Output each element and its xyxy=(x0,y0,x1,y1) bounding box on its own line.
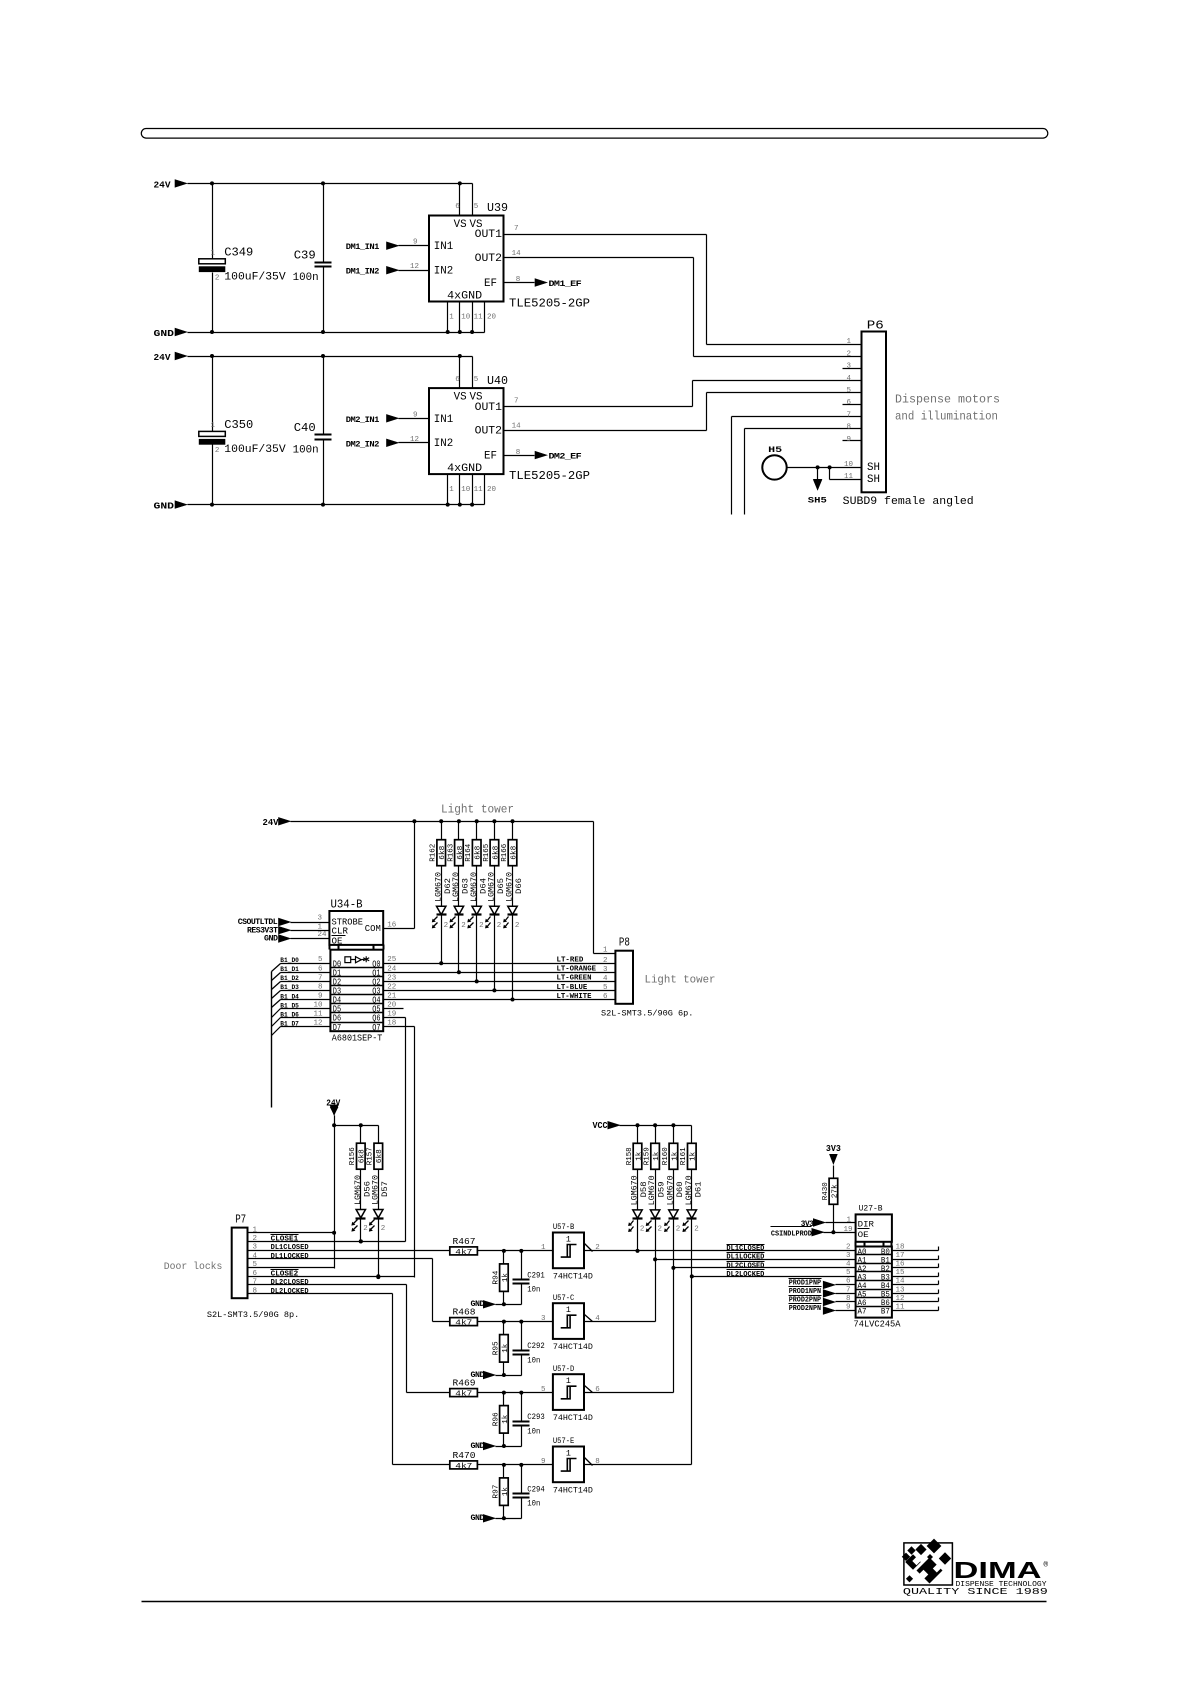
svg-text:D7: D7 xyxy=(333,1023,341,1033)
svg-text:S2L-SMT3.5/90G 8p.: S2L-SMT3.5/90G 8p. xyxy=(207,1310,299,1320)
svg-text:R162: R162 xyxy=(430,843,438,861)
svg-text:1k: 1k xyxy=(690,1151,698,1161)
svg-text:VCC: VCC xyxy=(593,1120,608,1131)
svg-text:Door locks: Door locks xyxy=(164,1261,223,1273)
wire Q3 LT-BLUE to P8 pin5 xyxy=(384,984,616,993)
wire Q7 down to door locks xyxy=(384,1027,415,1278)
svg-text:A7: A7 xyxy=(858,1308,867,1317)
svg-text:20: 20 xyxy=(487,314,497,322)
svg-text:B1_D2: B1_D2 xyxy=(280,975,299,982)
power flag 24V (U39 rail) xyxy=(154,179,188,190)
resistor R161 1k xyxy=(680,1126,698,1170)
svg-text:COM: COM xyxy=(365,924,381,934)
svg-text:OUT2: OUT2 xyxy=(475,253,502,265)
label Light tower header xyxy=(441,803,514,816)
svg-text:10n: 10n xyxy=(527,1355,540,1365)
svg-text:4k7: 4k7 xyxy=(455,1320,472,1328)
svg-text:DL1CLOSED: DL1CLOSED xyxy=(271,1244,309,1252)
svg-text:1: 1 xyxy=(566,1448,571,1458)
net label DL1CLOSED at U27 xyxy=(726,1245,764,1254)
svg-text:DL2CLOSED: DL2CLOSED xyxy=(271,1279,309,1287)
svg-text:IN1: IN1 xyxy=(434,414,453,426)
svg-text:1: 1 xyxy=(318,923,323,931)
svg-text:R469: R469 xyxy=(453,1378,476,1389)
svg-text:24: 24 xyxy=(318,931,328,939)
svg-text:1: 1 xyxy=(253,1226,258,1234)
svg-text:Dispense motors: Dispense motors xyxy=(895,394,1000,407)
svg-text:CLR: CLR xyxy=(332,926,349,936)
border top bar xyxy=(141,129,1048,139)
svg-text:D66: D66 xyxy=(515,878,524,894)
svg-text:74HCT14D: 74HCT14D xyxy=(553,1271,593,1281)
svg-text:SH: SH xyxy=(867,474,880,486)
svg-text:R164: R164 xyxy=(465,843,473,861)
svg-text:S2L-SMT3.5/90G 6p.: S2L-SMT3.5/90G 6p. xyxy=(601,1008,693,1018)
svg-text:DL1LOCKED: DL1LOCKED xyxy=(726,1254,764,1262)
resistor R157 6k8 xyxy=(367,1126,385,1170)
resistor R430 27k xyxy=(822,1166,840,1235)
svg-text:1k: 1k xyxy=(653,1151,661,1161)
svg-text:DM1_IN1: DM1_IN1 xyxy=(346,243,380,252)
svg-text:U57-E: U57-E xyxy=(553,1436,574,1446)
svg-text:VS: VS xyxy=(454,219,467,231)
wire U57-D output up to U27 A2 xyxy=(585,1220,676,1393)
svg-text:C291: C291 xyxy=(527,1270,545,1280)
svg-text:1k: 1k xyxy=(671,1151,679,1161)
svg-text:10n: 10n xyxy=(527,1426,540,1436)
svg-text:U57-C: U57-C xyxy=(553,1293,574,1303)
U40 OUT pin numbers xyxy=(512,398,522,431)
svg-text:20: 20 xyxy=(487,486,497,494)
svg-text:DM1_EF: DM1_EF xyxy=(549,280,582,289)
svg-text:D57: D57 xyxy=(381,1181,390,1197)
resistor R469 4k7 xyxy=(450,1378,478,1399)
capacitor C350 100uF/35V xyxy=(199,357,286,505)
LED D63 LGM670 xyxy=(450,866,471,973)
svg-text:R158: R158 xyxy=(626,1147,634,1165)
svg-text:1k: 1k xyxy=(502,1343,510,1353)
svg-text:R161: R161 xyxy=(680,1147,688,1165)
schmitt inverter U57-D 74HCT14D xyxy=(553,1364,600,1423)
svg-text:SUBD9 female angled: SUBD9 female angled xyxy=(843,496,974,508)
svg-text:8: 8 xyxy=(846,424,851,432)
wire U40 OUT2 to P6 pin5 xyxy=(504,393,862,431)
svg-text:Light tower: Light tower xyxy=(645,975,716,987)
svg-text:H5: H5 xyxy=(768,446,782,455)
svg-text:1: 1 xyxy=(603,947,608,955)
svg-text:EF: EF xyxy=(484,451,497,463)
svg-text:9: 9 xyxy=(413,411,418,419)
wire R467 to U57-B input xyxy=(478,1244,553,1253)
svg-text:B1_D0: B1_D0 xyxy=(280,957,299,964)
wire P6 pin6 stub xyxy=(843,404,862,406)
resistor R468 4k7 xyxy=(450,1307,478,1328)
svg-text:OUT2: OUT2 xyxy=(475,425,502,437)
svg-text:6k8: 6k8 xyxy=(439,846,447,860)
svg-text:1: 1 xyxy=(566,1234,571,1244)
wire P6 pin7 stub down xyxy=(732,417,862,515)
svg-text:DM2_EF: DM2_EF xyxy=(549,453,582,462)
svg-text:GND: GND xyxy=(264,934,278,943)
capacitor C291 10n xyxy=(513,1251,545,1305)
wire H5 to P6 pin10 xyxy=(787,465,862,469)
svg-text:LGM670: LGM670 xyxy=(631,1175,640,1205)
wire Q4 LT-WHITE to P8 pin6 xyxy=(384,993,616,1002)
H-bridge driver U39 TLE5205-2GP body xyxy=(429,201,590,310)
net label DL2CLOSED at U27 xyxy=(726,1262,764,1271)
U40 GND pins 1,10,11,20 xyxy=(448,475,497,505)
svg-text:PROD2NPN: PROD2NPN xyxy=(789,1305,821,1313)
IC U27-B control gate body xyxy=(856,1203,892,1246)
LED D65 LGM670 xyxy=(485,866,506,991)
svg-text:3: 3 xyxy=(318,915,323,923)
svg-text:EF: EF xyxy=(484,278,497,290)
svg-text:U34-B: U34-B xyxy=(331,897,363,911)
capacitor C349 100uF/35V xyxy=(199,184,286,333)
svg-text:74HCT14D: 74HCT14D xyxy=(553,1485,593,1495)
capacitor C293 10n xyxy=(513,1393,545,1447)
svg-text:7: 7 xyxy=(846,411,851,419)
resistor R467 4k7 xyxy=(450,1236,478,1257)
svg-text:8: 8 xyxy=(516,449,521,457)
LED D61 LGM670 xyxy=(682,1170,703,1234)
svg-text:QUALITY SINCE 1989: QUALITY SINCE 1989 xyxy=(903,1586,1048,1597)
svg-text:1: 1 xyxy=(211,249,216,257)
power flag 24V (light tower) xyxy=(263,817,291,828)
svg-text:2: 2 xyxy=(363,1225,368,1233)
ground flag GND (C294) xyxy=(471,1514,522,1523)
net PROD1PNP input flag xyxy=(789,1279,856,1289)
svg-text:U27-B: U27-B xyxy=(859,1203,883,1213)
svg-text:1k: 1k xyxy=(635,1151,643,1161)
svg-text:1k: 1k xyxy=(502,1273,510,1283)
DIMA logo text xyxy=(903,1557,1049,1597)
svg-text:2: 2 xyxy=(846,1244,851,1252)
resistor R96 1k xyxy=(492,1393,510,1449)
ground flag GND (C293) xyxy=(471,1442,522,1451)
svg-text:3V3: 3V3 xyxy=(826,1143,841,1154)
svg-text:TLE5205-2GP: TLE5205-2GP xyxy=(509,469,590,483)
svg-text:LGM670: LGM670 xyxy=(648,1175,657,1205)
svg-text:R163: R163 xyxy=(447,843,455,861)
svg-text:4xGND: 4xGND xyxy=(447,290,482,302)
net DM2_IN2 input flag xyxy=(346,436,430,450)
svg-text:DM2_IN2: DM2_IN2 xyxy=(346,440,380,449)
svg-text:2: 2 xyxy=(515,922,520,930)
svg-text:1: 1 xyxy=(566,1376,571,1386)
svg-text:7: 7 xyxy=(253,1279,258,1287)
label Dispense motors xyxy=(895,394,1000,407)
svg-text:2: 2 xyxy=(846,350,851,358)
svg-text:LGM670: LGM670 xyxy=(371,1175,380,1205)
wire U39 OUT2 to P6 pin2 xyxy=(504,258,862,357)
svg-text:3: 3 xyxy=(846,363,851,371)
DIMA logo mark xyxy=(902,1539,953,1585)
LED D60 LGM670 xyxy=(664,1170,685,1234)
net 3V3 input flag (DIR) xyxy=(801,1217,856,1229)
svg-text:U57-B: U57-B xyxy=(553,1222,574,1232)
resistor R470 4k7 xyxy=(450,1450,478,1471)
svg-text:100n: 100n xyxy=(293,272,319,284)
svg-text:6: 6 xyxy=(455,376,460,384)
svg-text:C294: C294 xyxy=(527,1484,545,1494)
IC U34-B control gate body xyxy=(329,897,383,949)
svg-text:R94: R94 xyxy=(492,1270,500,1284)
net DM1_IN1 input flag xyxy=(346,239,430,253)
svg-text:2: 2 xyxy=(215,274,220,282)
svg-text:1k: 1k xyxy=(502,1414,510,1424)
net PROD2NPN input flag xyxy=(789,1304,856,1315)
resistor R97 1k xyxy=(492,1465,510,1521)
svg-text:4: 4 xyxy=(846,1261,851,1269)
svg-text:100uF/35V: 100uF/35V xyxy=(224,444,286,456)
wire GND rail under U39 xyxy=(188,330,485,334)
wire D58 to U57-B output xyxy=(637,1219,639,1251)
svg-text:C39: C39 xyxy=(294,249,316,263)
svg-text:LGM670: LGM670 xyxy=(488,872,497,902)
svg-text:14: 14 xyxy=(512,423,522,431)
schmitt inverter U57-C 74HCT14D xyxy=(553,1293,600,1352)
resistor R159 1k xyxy=(644,1126,662,1170)
wires U27 B0-B7 with bus ticks xyxy=(892,1247,939,1311)
wire P6 pin3 stub xyxy=(843,368,862,370)
LED D58 LGM670 xyxy=(628,1170,649,1234)
U40 VS pins 6,5 xyxy=(455,357,478,389)
net PROD1NPN input flag xyxy=(789,1287,856,1298)
net SH5 shield flag xyxy=(808,468,827,506)
wire Q5 stub xyxy=(384,1008,404,1010)
svg-text:LT-RED: LT-RED xyxy=(557,957,584,965)
capacitor C39 100n xyxy=(293,184,332,333)
svg-text:19: 19 xyxy=(844,1226,853,1234)
svg-text:DL2LOCKED: DL2LOCKED xyxy=(271,1288,309,1296)
resistor R163 6k8 xyxy=(447,822,465,866)
svg-text:9: 9 xyxy=(541,1458,546,1466)
svg-text:7: 7 xyxy=(514,398,519,406)
wire R469 to U57-D input xyxy=(478,1386,553,1395)
connector P8 light tower xyxy=(594,936,694,1019)
net DM1_IN2 input flag xyxy=(346,263,430,277)
net label DL1LOCKED at U27 xyxy=(726,1253,764,1262)
svg-text:D61: D61 xyxy=(694,1181,703,1197)
svg-text:2: 2 xyxy=(215,447,220,455)
svg-text:OUT1: OUT1 xyxy=(475,229,502,241)
svg-text:B1_D6: B1_D6 xyxy=(280,1011,299,1018)
connector P6 SUBD9 body xyxy=(843,318,974,508)
svg-text:2: 2 xyxy=(444,922,449,930)
wire Q0 LT-RED to P8 pin2 xyxy=(384,957,616,966)
svg-text:100n: 100n xyxy=(293,445,319,457)
svg-text:SH5: SH5 xyxy=(808,497,827,506)
resistor R162 6k8 xyxy=(430,822,448,866)
net CSOUTLTDL input flag xyxy=(238,915,330,928)
svg-text:1: 1 xyxy=(566,1305,571,1315)
svg-text:OE: OE xyxy=(332,936,343,946)
svg-text:GND: GND xyxy=(154,500,175,511)
svg-text:GND: GND xyxy=(154,328,175,339)
wire 24V to P7 pins 1,5 and LEDs xyxy=(332,1116,378,1269)
svg-text:U57-D: U57-D xyxy=(553,1364,574,1374)
capacitor C294 10n xyxy=(513,1465,545,1519)
svg-text:P7: P7 xyxy=(235,1212,246,1226)
wire 24V rail to U39 VS xyxy=(188,181,473,185)
svg-text:R156: R156 xyxy=(349,1147,357,1165)
svg-text:B7: B7 xyxy=(881,1308,890,1317)
svg-text:LGM670: LGM670 xyxy=(434,872,443,902)
svg-text:CSINDLPROD: CSINDLPROD xyxy=(771,1230,812,1238)
wire P6 pin11 shield xyxy=(830,468,862,480)
svg-text:14: 14 xyxy=(512,250,522,258)
wire U57-C output up to U27 A1 xyxy=(585,1220,658,1322)
svg-text:9: 9 xyxy=(846,1303,851,1311)
svg-text:DL1LOCKED: DL1LOCKED xyxy=(271,1253,309,1261)
wire P6 pin8 stub down xyxy=(745,429,862,515)
svg-text:11: 11 xyxy=(474,314,484,322)
schmitt inverter U57-B 74HCT14D xyxy=(553,1222,600,1281)
svg-text:C349: C349 xyxy=(224,245,253,259)
svg-text:C293: C293 xyxy=(527,1412,545,1422)
svg-text:DIMA: DIMA xyxy=(954,1557,1042,1583)
svg-text:11: 11 xyxy=(474,486,484,494)
svg-text:LGM670: LGM670 xyxy=(685,1175,694,1205)
svg-text:R95: R95 xyxy=(492,1341,500,1355)
resistor R156 6k8 xyxy=(349,1126,367,1170)
wire Q6 down to door locks xyxy=(384,1018,406,1242)
svg-text:B1_D7: B1_D7 xyxy=(280,1020,299,1027)
ground flag GND (U39 rail) xyxy=(154,328,188,339)
LED D62 LGM670 xyxy=(432,866,453,964)
svg-text:24V: 24V xyxy=(154,352,171,363)
svg-text:R470: R470 xyxy=(453,1450,476,1461)
wire U39 OUT1 to P6 pin1 xyxy=(504,235,862,345)
svg-text:OE: OE xyxy=(858,1231,869,1240)
wire P7 pin6 CLOSE2 to Q7 xyxy=(248,1270,415,1279)
svg-text:C40: C40 xyxy=(294,421,316,435)
resistor R158 1k xyxy=(626,1126,644,1170)
ground flag GND (U34 OE) xyxy=(264,931,330,943)
svg-text:LGM670: LGM670 xyxy=(506,872,515,902)
svg-text:2: 2 xyxy=(381,1225,386,1233)
svg-text:100uF/35V: 100uF/35V xyxy=(224,272,286,284)
U39 OUT pin numbers xyxy=(512,225,522,258)
ground flag GND (C291) xyxy=(471,1300,522,1309)
svg-text:LT-WHITE: LT-WHITE xyxy=(557,993,592,1001)
svg-text:6k8: 6k8 xyxy=(359,1149,367,1163)
svg-text:LGM670: LGM670 xyxy=(470,872,479,902)
svg-text:12: 12 xyxy=(410,263,419,271)
svg-text:2: 2 xyxy=(676,1226,681,1234)
svg-text:4xGND: 4xGND xyxy=(447,463,482,475)
net RES3V3T input flag xyxy=(247,923,330,935)
IC U34 driver array A6801SEP-T body xyxy=(313,950,396,1044)
LED D64 LGM670 xyxy=(467,866,488,982)
svg-text:R159: R159 xyxy=(644,1147,652,1165)
svg-text:16: 16 xyxy=(387,921,397,929)
resistor R166 6k8 xyxy=(501,822,519,866)
svg-text:6k8: 6k8 xyxy=(457,846,465,860)
svg-text:12: 12 xyxy=(410,436,419,444)
ground flag GND (U40 rail) xyxy=(154,500,188,511)
svg-text:2: 2 xyxy=(658,1226,663,1234)
border bottom line xyxy=(142,1601,1047,1603)
U39 VS pins 6,5 xyxy=(455,184,478,216)
svg-text:LGM670: LGM670 xyxy=(452,872,461,902)
svg-text:and illumination: and illumination xyxy=(895,410,998,423)
svg-text:6k8: 6k8 xyxy=(510,846,518,860)
svg-text:1: 1 xyxy=(541,1244,546,1252)
svg-text:VS: VS xyxy=(454,392,467,404)
svg-text:R166: R166 xyxy=(501,843,509,861)
svg-text:5: 5 xyxy=(846,1269,851,1277)
svg-text:27k: 27k xyxy=(831,1184,839,1199)
wire U27 A3 row xyxy=(692,1276,856,1278)
LED D56 LGM670 xyxy=(351,1170,372,1244)
svg-text:IN2: IN2 xyxy=(434,438,453,450)
svg-text:D59: D59 xyxy=(658,1181,667,1197)
wire P7 pin1 24V xyxy=(248,1232,335,1234)
svg-text:6: 6 xyxy=(846,1278,851,1286)
svg-text:R467: R467 xyxy=(453,1236,476,1247)
svg-text:R96: R96 xyxy=(492,1412,500,1426)
svg-text:4k7: 4k7 xyxy=(455,1249,472,1257)
ground flag GND (C292) xyxy=(471,1371,522,1380)
resistor R160 1k xyxy=(662,1126,680,1170)
svg-text:SH: SH xyxy=(867,462,880,474)
svg-text:U40: U40 xyxy=(487,374,508,388)
svg-text:10n: 10n xyxy=(527,1499,540,1509)
svg-text:24V: 24V xyxy=(154,179,171,190)
LED D57 LGM670 xyxy=(369,1170,390,1280)
svg-text:R97: R97 xyxy=(492,1485,500,1499)
wire P7 pin8 DL2LOCKED xyxy=(248,1288,450,1465)
svg-text:DL2LOCKED: DL2LOCKED xyxy=(726,1271,764,1279)
svg-text:6: 6 xyxy=(603,993,608,1001)
svg-text:6k8: 6k8 xyxy=(376,1149,384,1163)
wire Q1 LT-ORANGE to P8 pin3 xyxy=(384,966,616,975)
svg-text:7: 7 xyxy=(846,1286,851,1294)
wire GND rail under U40 xyxy=(188,503,485,507)
svg-text:2: 2 xyxy=(603,957,608,965)
svg-text:3: 3 xyxy=(541,1315,546,1323)
svg-text:10n: 10n xyxy=(527,1285,540,1295)
bus B1_D0-B1_D7 entries xyxy=(272,957,331,1108)
svg-text:9: 9 xyxy=(413,239,418,247)
svg-text:74LVC245A: 74LVC245A xyxy=(854,1319,901,1330)
svg-text:IN1: IN1 xyxy=(434,241,453,253)
svg-text:4: 4 xyxy=(846,375,851,383)
wire P7 pin3 DL1CLOSED to R467 xyxy=(248,1244,450,1252)
U39 GND pins 1,10,11,20 xyxy=(448,302,497,333)
wire P7 pin7 DL2CLOSED xyxy=(248,1279,450,1392)
net PROD2PNP input flag xyxy=(789,1296,856,1306)
svg-text:Q7: Q7 xyxy=(372,1023,380,1033)
svg-text:®: ® xyxy=(1044,1561,1049,1570)
svg-text:C292: C292 xyxy=(527,1341,545,1351)
svg-text:4: 4 xyxy=(603,975,608,983)
capacitor C40 100n xyxy=(293,357,332,505)
svg-text:U39: U39 xyxy=(487,201,508,215)
net CSINDLPROD input flag (OE) xyxy=(771,1226,856,1238)
wire U57-E output up to U27 A3 xyxy=(585,1220,694,1465)
LED D59 LGM670 xyxy=(646,1170,667,1234)
svg-text:1: 1 xyxy=(211,422,216,430)
svg-text:2: 2 xyxy=(497,922,502,930)
resistor R164 6k8 xyxy=(465,822,483,866)
svg-text:P6: P6 xyxy=(867,318,884,332)
schmitt inverter U57-E 74HCT14D xyxy=(553,1436,600,1495)
svg-text:8: 8 xyxy=(516,276,521,284)
wire P6 pin9 stub xyxy=(843,440,862,442)
